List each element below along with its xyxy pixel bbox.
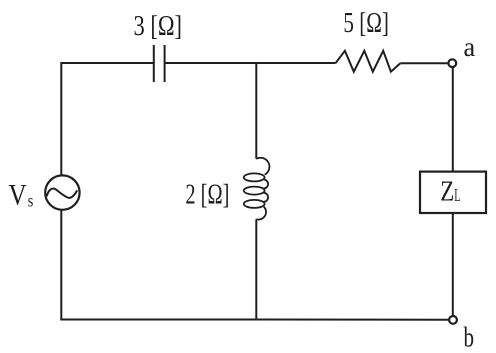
wire: top-left corner, left rail top to capacitor left plate xyxy=(61,63,154,175)
wire: top node to inductor top xyxy=(255,63,257,159)
wire: load ZL bottom down to node b xyxy=(452,213,454,315)
svg-text:3 [Ω]: 3 [Ω] xyxy=(134,10,183,42)
load ZL: rectangle xyxy=(420,172,486,213)
resistor 5Ω: zigzag xyxy=(336,51,401,72)
source Vs: sine wave xyxy=(47,189,77,198)
wire: resistor right lead to node a xyxy=(400,62,448,64)
source Vs: circle xyxy=(45,175,79,209)
capacitor 3Ω: right plate xyxy=(164,45,166,82)
svg-text:b: b xyxy=(464,323,475,353)
node b: terminal circle xyxy=(449,316,457,324)
inductor 2Ω: coil of 3 loops xyxy=(244,158,270,220)
svg-text:2 [Ω]: 2 [Ω] xyxy=(185,179,229,211)
svg-text:a: a xyxy=(464,31,476,62)
svg-text:5 [Ω]: 5 [Ω] xyxy=(343,7,389,39)
wire: source bottom to bottom-left corner to middle node xyxy=(61,210,256,320)
svg-text:V: V xyxy=(9,180,27,212)
node a: terminal circle xyxy=(448,59,456,67)
svg-text:L: L xyxy=(454,185,460,205)
svg-text:Z: Z xyxy=(440,177,454,208)
wire: inductor bottom to bottom node xyxy=(255,219,257,319)
wire: bottom middle node to node b xyxy=(256,319,448,321)
wire: node a down to load ZL top xyxy=(452,68,454,172)
capacitor 3Ω: left plate xyxy=(153,45,155,82)
wire: middle node to resistor left lead xyxy=(256,62,335,64)
svg-text:s: s xyxy=(28,191,34,211)
wire: capacitor right plate to middle node xyxy=(165,62,257,64)
